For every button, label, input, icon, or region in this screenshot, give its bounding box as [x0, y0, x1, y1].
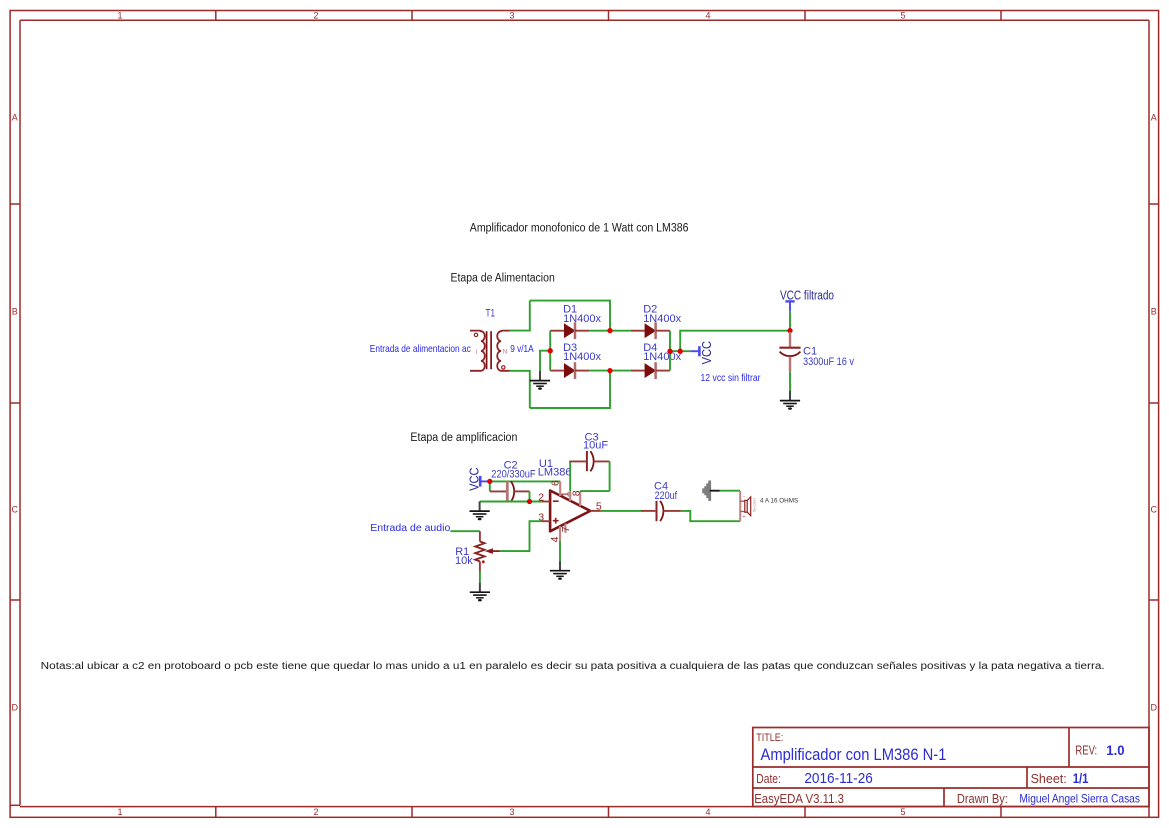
wire riser to C1 bus	[680, 331, 790, 352]
frame column numbers bottom	[117, 807, 905, 817]
svg-text:D: D	[12, 703, 19, 713]
svg-text:C: C	[1151, 505, 1158, 515]
wire VCC filtrado to C1 node	[789, 311, 791, 330]
svg-text:1: 1	[117, 11, 122, 21]
svg-text:1.0: 1.0	[1106, 742, 1124, 758]
svg-text:3300uF 16 v: 3300uF 16 v	[803, 356, 854, 368]
junction VCC amp	[487, 479, 492, 484]
svg-text:LM386: LM386	[538, 467, 572, 479]
svg-text:10k: 10k	[455, 555, 473, 567]
svg-text:4 A 16 OHMS: 4 A 16 OHMS	[760, 497, 798, 504]
junction VCC riser	[678, 349, 683, 354]
diode D2	[631, 322, 670, 339]
wire pin8 link	[580, 490, 609, 492]
wire bridge left to ground	[540, 351, 550, 371]
ground flag speaker return (gray)	[703, 481, 720, 501]
svg-text:D: D	[1151, 703, 1158, 713]
power flag VCC (bridge output)	[690, 341, 714, 364]
wire pin2 row	[480, 501, 542, 503]
svg-text:1N400x: 1N400x	[563, 351, 601, 363]
diode D1	[550, 322, 589, 339]
svg-text:5: 5	[900, 807, 905, 817]
svg-text:1N400x: 1N400x	[643, 351, 681, 363]
svg-text:1N400x: 1N400x	[563, 313, 601, 325]
svg-text:5: 5	[900, 11, 905, 21]
frame row letters right	[1151, 113, 1158, 713]
ground U1 pin4	[550, 561, 570, 580]
junction D1-D2 top	[607, 328, 612, 333]
svg-text:EasyEDA V3.11.3: EasyEDA V3.11.3	[754, 792, 844, 806]
wire speaker minus	[720, 490, 740, 492]
capacitor C3	[569, 451, 609, 471]
wire C2 right to pin2 row	[529, 491, 531, 501]
svg-text:B: B	[1151, 307, 1157, 317]
svg-text:3: 3	[509, 807, 514, 817]
svg-text:Sheet:: Sheet:	[1031, 772, 1067, 786]
svg-text:2: 2	[538, 492, 544, 504]
transformer T1	[470, 331, 510, 371]
wire bridge left vertical	[549, 331, 551, 371]
wire C1 to ground	[789, 371, 791, 391]
svg-text:C: C	[12, 505, 19, 515]
wire VCC down to C2	[489, 481, 491, 491]
svg-text:Etapa de Alimentacion: Etapa de Alimentacion	[451, 272, 555, 284]
svg-text:2: 2	[313, 11, 318, 21]
svg-text:+: +	[742, 514, 746, 520]
svg-text:Notas:al ubicar a c2 en protob: Notas:al ubicar a c2 en protoboard o pcb…	[41, 661, 1105, 672]
svg-text:T1: T1	[486, 308, 496, 320]
wire C3 right riser	[609, 461, 611, 491]
wire audio input	[450, 530, 480, 532]
svg-text:REV:: REV:	[1075, 744, 1097, 758]
svg-text:B: B	[12, 307, 18, 317]
svg-text:Miguel Angel Sierra Casas: Miguel Angel Sierra Casas	[1019, 792, 1140, 806]
wire C4 to speaker plus	[681, 511, 740, 521]
frame column numbers top	[117, 11, 905, 21]
svg-text:10uF: 10uF	[583, 440, 608, 452]
svg-text:12 vcc sin filtrar: 12 vcc sin filtrar	[701, 372, 761, 384]
capacitor C2	[490, 481, 530, 501]
wire secondary bottom to bus	[510, 371, 530, 408]
svg-text:Drawn By:: Drawn By:	[957, 792, 1008, 806]
wire D1 cathode to D2 anode	[589, 330, 631, 332]
junction D3-D4 bottom	[607, 368, 612, 373]
svg-text:TITLE:: TITLE:	[756, 732, 783, 744]
wire bridge right vertical	[669, 331, 671, 371]
svg-text:Entrada de alimentacion ac: Entrada de alimentacion ac	[370, 343, 471, 355]
capacitor C4	[641, 501, 681, 521]
frame column ticks top	[216, 10, 1001, 20]
ground C2 net	[470, 502, 490, 521]
frame column ticks bottom	[216, 807, 1001, 818]
wire bottom bus	[530, 371, 610, 408]
svg-text:4: 4	[705, 807, 710, 817]
svg-text:N: N	[503, 349, 508, 356]
op-amp U1	[541, 482, 601, 541]
ground C1	[780, 391, 800, 410]
junction bridge right	[667, 349, 672, 354]
svg-text:I: I	[476, 350, 478, 356]
frame row ticks right	[1149, 204, 1159, 600]
svg-text:2: 2	[313, 807, 318, 817]
wire R1 to ground	[479, 572, 481, 583]
wire rectified output to VCC tap	[670, 350, 690, 352]
svg-text:3: 3	[509, 11, 514, 21]
svg-text:4: 4	[705, 11, 710, 21]
svg-text:1: 1	[117, 807, 122, 817]
svg-text:2016-11-26: 2016-11-26	[804, 770, 872, 787]
svg-text:Etapa de amplificacion: Etapa de amplificacion	[410, 432, 517, 444]
svg-text:A: A	[12, 113, 18, 123]
junction bridge left	[548, 348, 553, 353]
ground transformer center tap	[530, 371, 550, 390]
frame row ticks left	[10, 204, 20, 600]
svg-text:-: -	[743, 495, 745, 501]
svg-text:A: A	[1151, 113, 1157, 123]
svg-text:9 v/1A: 9 v/1A	[510, 343, 534, 355]
diode D3	[550, 362, 589, 379]
svg-text:6: 6	[549, 480, 561, 486]
frame row letters left	[12, 113, 19, 713]
diode D4	[631, 362, 670, 379]
title block box	[753, 728, 1149, 807]
junction pin2 node	[527, 499, 532, 504]
svg-text:7: 7	[560, 526, 572, 532]
svg-text:1N400x: 1N400x	[643, 313, 681, 325]
ground R1	[470, 583, 490, 602]
power flag VCC filtrado	[780, 288, 834, 312]
wire pin3 to R1 wiper	[500, 521, 542, 551]
wire secondary top to bus	[510, 301, 530, 331]
capacitor C1	[779, 332, 800, 371]
speaker LS1	[740, 491, 756, 521]
svg-text:1/1: 1/1	[1073, 770, 1089, 786]
wire VCC to pin6	[490, 480, 561, 482]
resistor R1 (potentiometer)	[475, 531, 500, 571]
svg-text:Amplificador con LM386 N-1: Amplificador con LM386 N-1	[761, 746, 947, 764]
svg-text:VCC: VCC	[699, 341, 714, 364]
svg-text:Date:: Date:	[756, 772, 781, 786]
wire top bus	[530, 301, 610, 331]
power flag VCC (amp stage)	[466, 468, 490, 491]
svg-text:Entrada de audio: Entrada de audio	[370, 522, 450, 534]
svg-text:220/330uF: 220/330uF	[491, 468, 536, 480]
junction C1 node	[787, 328, 792, 333]
svg-text:220uf: 220uf	[655, 490, 678, 502]
svg-text:Speaker: Speaker	[752, 497, 757, 512]
svg-text:Amplificador monofonico de 1 W: Amplificador monofonico de 1 Watt con LM…	[470, 222, 689, 234]
wire output pin5 to C4	[601, 510, 641, 512]
wire D3 cathode to D4 anode	[589, 370, 631, 372]
wire pin1 riser	[569, 461, 571, 491]
wire pin4 to ground	[559, 541, 561, 561]
